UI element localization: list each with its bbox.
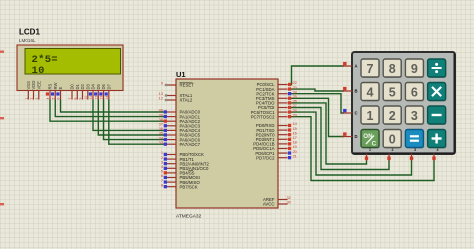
keypad column pin 3	[410, 148, 416, 161]
svg-text:12: 12	[94, 96, 98, 100]
U1 pin 14 PD0/RXD (right)	[256, 121, 298, 128]
sheet edge marker 3	[0, 203, 4, 205]
svg-text:1: 1	[369, 148, 371, 152]
svg-text:9: 9	[411, 62, 418, 76]
wire LCD D7 to U1	[109, 100, 167, 145]
U1 pin 12 XTAL2 (left)	[159, 96, 193, 103]
LCD pin 8 D1	[73, 83, 80, 99]
svg-text:PD7/OC2: PD7/OC2	[256, 155, 275, 160]
svg-text:D2: D2	[80, 83, 85, 89]
svg-text:8: 8	[389, 62, 396, 76]
wire LCD RW to U1	[55, 100, 167, 117]
U1 pin 3 PB2/AIN0/INT2 (left)	[161, 159, 210, 166]
svg-text:3: 3	[414, 148, 416, 152]
wire LCD E to U1	[61, 100, 168, 113]
LCD LM016L body	[17, 45, 123, 91]
U1 pin 9 RESET (left)	[161, 81, 194, 88]
LCD pin 7 D0	[68, 83, 75, 99]
wire LCD D5 to U1	[98, 100, 167, 136]
U1 pin 25 PC3/TMS (right)	[256, 94, 297, 101]
U1 pin 40 PA0/ADC0 (left)	[159, 108, 201, 115]
U1 pin 20 PD6/ICP1 (right)	[255, 149, 297, 156]
keypad column pin 2	[387, 148, 393, 161]
svg-text:12: 12	[159, 96, 163, 101]
keypad column pin 4	[432, 148, 438, 161]
svg-text:XTAL2: XTAL2	[180, 98, 193, 103]
wire PC3 to keypad row D	[288, 98, 344, 136]
keypad button −	[428, 106, 447, 125]
U1 pin 39 PA1/ADC1 (left)	[159, 112, 201, 119]
svg-text:LM016L: LM016L	[19, 38, 36, 43]
keypad button 1	[361, 106, 380, 125]
keypad button 9	[405, 59, 424, 78]
svg-text:VDD: VDD	[31, 81, 36, 90]
wire PC6 to keypad column 3	[288, 112, 412, 175]
svg-text:1: 1	[24, 98, 28, 100]
U1 pin 37 PA3/ADC3 (left)	[159, 122, 201, 129]
svg-text:6: 6	[57, 98, 61, 100]
wire PC5 to keypad column 2	[288, 108, 389, 170]
keypad button 4	[361, 83, 380, 102]
svg-text:7: 7	[68, 98, 72, 100]
LCD pin 6 E	[56, 87, 63, 100]
svg-text:6: 6	[411, 85, 418, 99]
microcontroller U1 ATMEGA32 body	[176, 79, 278, 208]
wire LCD D4 to U1	[93, 100, 167, 131]
U1 pin 21 PD7/OC2 (right)	[256, 153, 297, 160]
LCD pin 13 D6	[99, 83, 106, 99]
sheet edge marker 2	[0, 117, 4, 119]
svg-text:21: 21	[293, 153, 297, 158]
keypad column pin 1	[365, 148, 371, 161]
svg-text:ATMEGA32: ATMEGA32	[176, 214, 202, 220]
svg-text:4: 4	[46, 98, 50, 100]
svg-text:5: 5	[51, 98, 55, 100]
U1 pin 30 AVCC (right)	[263, 200, 292, 207]
keypad button ×	[428, 83, 447, 102]
svg-text:5: 5	[389, 85, 396, 99]
svg-text:D: D	[355, 134, 358, 139]
U1 pin 6 PB5/MOSI (left)	[161, 173, 200, 180]
svg-text:7: 7	[367, 62, 374, 76]
svg-text:B: B	[355, 89, 358, 94]
sheet edge marker 1	[0, 51, 4, 53]
keypad button 0	[383, 130, 402, 149]
U1 pin 8 PB7/SCK (left)	[161, 182, 198, 189]
U1 pin 18 PD4/OC1B (right)	[253, 140, 297, 147]
svg-text:RS: RS	[48, 83, 53, 89]
keypad button 5	[383, 83, 402, 102]
keypad button +	[428, 130, 447, 149]
keypad button ÷	[428, 59, 447, 78]
U1 pin 26 PC4/TDO (right)	[256, 99, 297, 106]
U1 pin 35 PA5/ADC5 (left)	[159, 131, 201, 138]
svg-text:9: 9	[161, 81, 163, 86]
wire LCD RS to U1	[50, 100, 167, 122]
svg-text:3: 3	[411, 109, 418, 123]
svg-text:2: 2	[389, 109, 396, 123]
keypad row pin B	[342, 87, 358, 94]
U1 pin 32 AREF (right)	[263, 195, 291, 202]
svg-text:2: 2	[30, 98, 34, 100]
svg-text:C: C	[372, 141, 377, 148]
LCD pin 14 D7	[105, 83, 112, 99]
keypad body (calculator keypad)	[352, 52, 455, 154]
LCD pin 12 D5	[94, 83, 101, 99]
LCD pin 9 D2	[79, 83, 86, 99]
LCD pin 5 RW	[51, 83, 58, 100]
wire PC1 to keypad row B	[288, 89, 344, 91]
svg-text:8: 8	[73, 98, 77, 100]
svg-text:PB7/SCK: PB7/SCK	[180, 184, 198, 189]
U1 pin 33 PA7/ADC7 (left)	[159, 140, 201, 147]
wire PC7 to keypad column 4	[288, 117, 434, 181]
U1 pin 38 PA2/ADC2 (left)	[159, 117, 201, 124]
svg-text:D6: D6	[101, 83, 106, 89]
keypad button 6	[405, 83, 424, 102]
U1 pin 29 PC7/TOSC2 (right)	[251, 112, 297, 119]
keypad button ON/C	[361, 130, 380, 149]
U1 pin 17 PD3/INT1 (right)	[256, 135, 297, 142]
U1 pin 16 PD2/INT0 (right)	[256, 130, 297, 137]
keypad button 3	[405, 106, 424, 125]
LCD screen	[25, 49, 121, 75]
svg-text:4: 4	[437, 148, 439, 152]
U1 pin 22 PC0/SCL (right)	[257, 80, 297, 87]
svg-text:11: 11	[89, 96, 93, 100]
keypad button 8	[383, 59, 402, 78]
LCD pin 2 VDD	[30, 81, 37, 100]
LCD pin 1 VSS	[24, 81, 31, 100]
U1 pin 28 PC6/TOSC1 (right)	[251, 108, 297, 115]
keypad row pin C	[342, 109, 358, 116]
keypad row pin D	[342, 132, 358, 139]
svg-text:1: 1	[367, 109, 374, 123]
U1 pin 4 PB3/AIN1/OC0 (left)	[161, 164, 209, 171]
svg-text:RESET: RESET	[180, 83, 195, 88]
U1 pin 24 PC2/TCK (right)	[256, 89, 297, 96]
wire PC4 to keypad column 1	[288, 103, 367, 164]
wire PC2 to keypad row C	[288, 94, 344, 113]
svg-text:VEE: VEE	[36, 81, 41, 90]
keypad row pin A	[342, 62, 358, 69]
U1 pin 34 PA6/ADC6 (left)	[159, 135, 201, 142]
svg-text:4: 4	[367, 85, 374, 99]
svg-text:13: 13	[100, 96, 104, 100]
U1 pin 27 PC5/TDI (right)	[258, 103, 297, 110]
U1 pin 23 PC1/SDA (right)	[256, 85, 297, 92]
LCD pin 10 D3	[84, 83, 91, 99]
U1 pin 2 PB1/T1 (left)	[161, 155, 195, 162]
svg-text:10: 10	[32, 65, 45, 77]
svg-text:A: A	[355, 64, 358, 69]
svg-text:10: 10	[84, 96, 88, 100]
wire PC0 to keypad row A	[288, 66, 344, 85]
svg-text:E: E	[58, 87, 63, 90]
LCD pin 4 RS	[46, 83, 53, 99]
svg-text:LCD1: LCD1	[19, 28, 40, 37]
svg-text:D4: D4	[91, 83, 96, 89]
svg-text:C: C	[355, 111, 358, 116]
wire LCD D6 to U1	[104, 100, 168, 140]
U1 pin 1 PB0/T0/XCK (left)	[161, 150, 204, 157]
svg-text:D7: D7	[106, 83, 111, 89]
LCD pin 11 D4	[89, 83, 96, 99]
svg-text:3: 3	[35, 98, 39, 100]
svg-text:2: 2	[392, 148, 394, 152]
keypad button 2	[383, 106, 402, 125]
LCD pin 3 VEE	[35, 81, 42, 100]
svg-text:33: 33	[159, 140, 163, 145]
svg-text:D0: D0	[70, 83, 75, 89]
U1 pin 15 PD1/TXD (right)	[256, 126, 296, 133]
U1 pin 36 PA4/ADC4 (left)	[159, 126, 201, 133]
keypad button =	[405, 130, 424, 149]
svg-text:U1: U1	[176, 70, 186, 79]
svg-text:PC7/TOSC2: PC7/TOSC2	[251, 114, 275, 119]
U1 pin 5 PB4/SS (left)	[161, 169, 195, 176]
svg-text:14: 14	[105, 96, 109, 100]
U1 pin 19 PD5/OC1A (right)	[253, 144, 297, 151]
svg-text:9: 9	[79, 98, 83, 100]
keypad button 7	[361, 59, 380, 78]
svg-text:ON: ON	[363, 133, 373, 140]
U1 pin 13 XTAL1 (left)	[159, 91, 193, 98]
svg-text:RW: RW	[53, 83, 58, 90]
svg-text:8: 8	[161, 182, 163, 187]
svg-text:29: 29	[293, 112, 297, 117]
svg-text:PA7/ADC7: PA7/ADC7	[180, 142, 201, 147]
U1 pin 7 PB6/MISO (left)	[161, 178, 201, 185]
svg-text:AVCC: AVCC	[263, 202, 275, 207]
svg-text:0: 0	[389, 132, 396, 146]
